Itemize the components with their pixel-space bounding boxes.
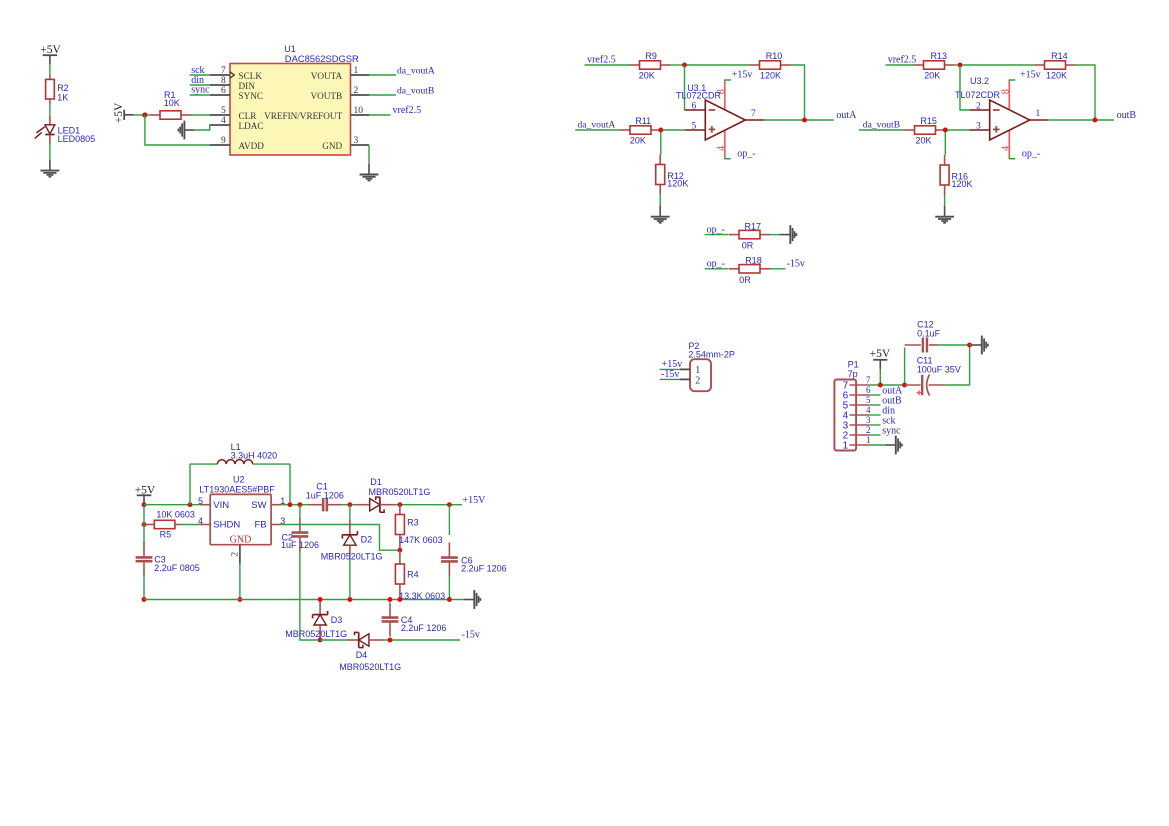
wire [143,525,145,544]
svg-text:1: 1 [866,435,871,445]
svg-text:MBR0520LT1G: MBR0520LT1G [339,662,401,672]
svg-text:10: 10 [354,106,364,116]
svg-text:2: 2 [231,552,241,557]
junction [967,343,972,348]
junction [388,638,393,643]
svg-text:2.54mm-2P: 2.54mm-2P [688,350,735,360]
junction [388,597,393,602]
resistor R10 120K [750,51,791,80]
pin 3 (P1) [843,415,871,432]
inductor L1 3.3uH 4020 [190,442,290,505]
wire [368,145,370,164]
svg-text:op_-: op_- [707,259,725,270]
svg-text:13.3K 0603: 13.3K 0603 [399,591,445,601]
resistor R3 147K 0603 [395,505,442,548]
power +5V supply symbol (U2 branch) [135,484,156,504]
pin 9 AVDD [210,136,264,151]
net label da_voutA + wire (op-amp A input) [575,120,620,131]
pin 4 LDAC [210,116,264,131]
net label sync + wire [190,85,210,96]
svg-text:20K: 20K [630,135,646,145]
op-amp U3.1 TL072CDR [676,80,764,159]
ground rail wire [144,599,464,601]
svg-text:R11: R11 [635,116,651,126]
svg-text:6: 6 [692,101,697,111]
junction [347,502,352,507]
svg-text:4: 4 [1001,145,1012,151]
svg-text:R9: R9 [645,51,657,61]
svg-text:+5V: +5V [40,44,61,56]
svg-text:2: 2 [976,101,981,111]
wire C2 down to charge pump node [300,552,318,641]
junction [318,597,323,602]
pin 5 (P1) [843,395,871,412]
svg-text:D2: D2 [361,534,373,544]
svg-text:MBR0520LT1G: MBR0520LT1G [321,552,383,562]
capacitor C4 2.2uF 1206 [382,600,447,637]
svg-text:vref2.5: vref2.5 [587,55,616,66]
svg-text:TL072CDR: TL072CDR [955,90,1001,100]
wire [134,114,143,116]
junction (R3/R4) [397,548,402,553]
pin 2 (P1) [843,425,871,442]
svg-text:LED0805: LED0805 [58,134,96,144]
svg-text:1uF 1206: 1uF 1206 [281,540,319,550]
net label +15v + wire (P2) [660,359,683,370]
pin 2 GND (U2) [231,545,241,564]
junction [188,502,193,507]
svg-text:7p: 7p [848,369,858,379]
resistor R13 20K [914,51,955,80]
svg-text:+5V: +5V [870,348,891,360]
svg-text:sync: sync [191,85,210,96]
svg-text:U2: U2 [233,474,245,484]
resistor R15 20K [905,116,946,145]
pin 7 (P1) [843,375,871,392]
svg-text:120K: 120K [1046,71,1067,81]
junction [297,502,302,507]
ground (right of R17) [780,225,797,244]
svg-text:U3.2: U3.2 [970,76,989,86]
wire output [1048,119,1114,121]
wire [191,114,210,116]
junction [902,383,907,388]
svg-text:op_-: op_- [737,149,755,160]
net label vref2.5 + wire (op-amp B input) [886,55,917,66]
svg-text:MBR0520LT1G: MBR0520LT1G [369,487,431,497]
junction [397,597,402,602]
svg-text:2: 2 [695,376,700,387]
wire + net label sync (P1 pin2) [869,425,901,436]
power +5V supply symbol (rotated, U1 branch) [113,102,134,123]
svg-text:AVDD: AVDD [239,141,265,151]
svg-text:120K: 120K [760,71,781,81]
svg-text:5: 5 [198,496,203,506]
pin 1 VOUTA [311,66,369,81]
LED LED1 [35,116,95,144]
ground (LED branch) [41,160,60,177]
diode D4 MBR0520LT1G [320,632,401,672]
resistor R14 120K [1035,51,1076,80]
svg-text:20K: 20K [924,71,940,81]
junction [682,63,687,68]
svg-text:LDAC: LDAC [239,121,264,131]
pin 10 VREFIN/VREFOUT [264,106,369,121]
svg-text:5: 5 [692,121,697,131]
junction [237,597,242,602]
resistor R2 [46,75,69,105]
pin 1 (P2) [680,365,700,376]
wire C12 left leg [904,348,906,384]
svg-text:1uF 1206: 1uF 1206 [306,490,344,500]
pin 3 FB [271,516,285,526]
svg-text:VOUTA: VOUTA [311,71,343,81]
wire + net label da_voutB [369,85,434,96]
wire [770,234,780,236]
svg-text:4: 4 [221,116,226,126]
pin 5 VIN [198,496,210,506]
svg-text:7: 7 [221,66,226,76]
svg-text:D1: D1 [370,477,382,487]
junction [802,118,807,123]
svg-text:VIN: VIN [213,500,229,511]
svg-text:100uF 35V: 100uF 35V [917,365,961,375]
net label din + wire [190,75,210,86]
svg-text:outB: outB [1117,110,1137,121]
junction [447,597,452,602]
wire [879,369,881,385]
svg-text:1: 1 [1036,109,1041,119]
svg-text:MBR0520LT1G: MBR0520LT1G [285,629,347,639]
wire [687,64,750,66]
svg-text:R13: R13 [931,51,948,61]
capacitor C11 100uF 35V (polarized) [905,355,961,395]
svg-text:op_-: op_- [707,224,725,235]
resistor R1 10K [147,90,191,119]
wire [49,104,51,116]
wire SW row [281,504,308,506]
pin 2 VOUTB [311,86,369,101]
svg-text:5: 5 [221,106,226,116]
diode D1 MBR0520LT1G [355,477,430,512]
wire +5V down to AVDD [145,115,210,145]
wire [671,64,683,66]
svg-text:SHDN: SHDN [213,519,240,530]
junction [943,128,948,133]
svg-text:2.2uF 0805: 2.2uF 0805 [154,563,200,573]
net label op_- + wire (R17) [705,224,729,235]
resistor R16 120K [940,132,972,195]
net label vref2.5 + wire (op-amp A input) [585,55,631,66]
svg-text:SYNC: SYNC [239,91,264,101]
junction [142,112,147,117]
pin 3 GND [322,136,369,151]
wire feedback to pin2 [960,65,970,110]
wire [945,348,969,386]
wire [970,344,972,346]
power +5V supply symbol (P1) [870,348,891,369]
resistor R11 20K [620,116,661,145]
wire + net label din (P1 pin4) [869,405,895,416]
svg-text:8: 8 [1001,89,1012,94]
wire [791,65,805,118]
svg-text:120K: 120K [667,179,688,189]
IC U1 DAC8562SDGSR body [230,44,359,155]
resistor R4 13.3K 0603 [395,550,445,601]
resistor R17 0R [729,222,770,251]
svg-text:-15v: -15v [787,259,805,270]
wire [963,64,1035,66]
svg-text:+15v: +15v [1020,69,1041,80]
connector P1 7p body [834,359,858,450]
junction [142,502,147,507]
pin 4 SHDN [198,516,210,526]
svg-text:DAC8562SDGSR: DAC8562SDGSR [285,53,359,64]
ground (below R16) [935,206,954,223]
svg-text:4: 4 [866,405,871,415]
pin 5 CLR [210,106,257,121]
svg-text:VREFIN/VREFOUT: VREFIN/VREFOUT [264,111,342,121]
wire + net label da_voutA [369,65,435,76]
svg-text:SW: SW [251,500,266,511]
svg-text:7: 7 [866,375,871,385]
svg-text:10K 0603: 10K 0603 [156,510,195,520]
svg-text:vref2.5: vref2.5 [393,105,422,116]
svg-text:VOUTB: VOUTB [311,91,343,101]
junction [1093,118,1098,123]
diode D2 MBR0520LT1G [321,505,383,597]
wire + net label outB (P1 pin5) [869,395,902,406]
wire -15v row [385,639,461,641]
pin 4 (P1) [843,405,871,422]
ground (P1 pin1) [885,436,902,455]
IC U2 LT1930AES5#PBF body [199,474,275,545]
net label sck + wire [190,65,210,76]
pin 7 SCLK [210,66,262,81]
wire + net label sck (P1 pin3) [869,415,895,426]
ground (C11/C12) [972,336,988,355]
svg-text:+15v: +15v [732,69,753,80]
svg-text:1: 1 [843,440,849,451]
pin 8 DIN [210,76,255,91]
svg-text:op_-: op_- [1022,149,1040,160]
svg-text:R10: R10 [766,51,783,61]
svg-text:5: 5 [866,395,871,405]
svg-text:GND: GND [230,535,252,546]
svg-text:GND: GND [322,141,342,151]
wire [143,507,145,525]
wire [49,144,51,160]
diode D3 MBR0520LT1G [285,600,347,640]
svg-text:da_voutB: da_voutB [397,85,434,96]
ground (rail, right arrow) [464,590,480,609]
junction [658,128,663,133]
pin 6 SYNC [210,86,263,101]
svg-text:20K: 20K [916,135,932,145]
junction [142,597,147,602]
wire LDAC [195,125,211,130]
wire +15V row [395,504,462,506]
wire output [764,119,834,121]
resistor R12 120K [656,132,689,194]
wire [1076,65,1096,118]
svg-text:R18: R18 [745,255,762,265]
net label -15v + wire (P2) [660,369,680,380]
wire [663,129,685,131]
svg-text:vref2.5: vref2.5 [888,55,917,66]
op-amp U3.2 TL072CDR [955,76,1048,159]
wire VIN row [144,504,200,506]
wire [948,129,970,131]
svg-text:7: 7 [751,109,756,119]
svg-text:R14: R14 [1051,51,1068,61]
svg-text:2.2uF 1206: 2.2uF 1206 [401,623,447,633]
wire (P1 pin1 to ground) [869,444,885,446]
svg-text:D4: D4 [356,650,368,660]
svg-text:D3: D3 [331,615,343,625]
resistor R5 10K 0603 [144,510,200,540]
wire [944,195,946,206]
svg-text:-15v: -15v [462,629,480,640]
junction [878,383,883,388]
junction [447,502,452,507]
svg-text:+5V: +5V [113,102,125,123]
wire FB feedback [281,525,397,551]
junction [318,638,323,643]
svg-text:R3: R3 [407,518,419,528]
pin 1 SW [271,496,285,506]
junction [397,502,402,507]
svg-text:R5: R5 [160,530,172,540]
svg-text:4: 4 [716,145,727,151]
capacitor C12 0.1uF [905,320,941,353]
resistor R9 20K [630,51,671,80]
pin 1 (P1) [843,435,871,452]
svg-text:da_voutA: da_voutA [578,120,616,131]
svg-text:R17: R17 [745,222,762,232]
junction [288,502,293,507]
junction (R5 row) [142,522,147,527]
wire [143,503,145,505]
wire feedback to pin6 [685,65,686,110]
svg-text:147K 0603: 147K 0603 [399,535,443,545]
svg-text:3: 3 [354,136,359,146]
svg-text:sync: sync [882,425,901,436]
capacitor C1 1uF 1206 [306,481,344,511]
svg-text:1K: 1K [57,92,68,102]
wire [49,64,51,74]
capacitor C6 2.2uF 1206 [441,505,507,597]
wire [659,195,661,206]
pin 6 (P1) [843,385,871,402]
svg-text:9: 9 [221,136,226,146]
svg-text:20K: 20K [639,71,655,81]
ground (U1 GND pin) [360,164,379,181]
svg-text:CLR: CLR [239,111,258,121]
wire [342,504,360,506]
connector P2 2.54mm-2P body [688,341,735,391]
wire + net label outA (P1 pin6) [869,385,903,396]
wire [143,576,145,599]
svg-text:FB: FB [254,519,266,530]
svg-text:3: 3 [976,121,981,131]
svg-text:da_voutB: da_voutB [863,120,900,131]
svg-text:outA: outA [836,110,857,121]
svg-text:6: 6 [221,86,226,96]
svg-text:2.2uF 1206: 2.2uF 1206 [461,564,507,574]
wire [239,564,241,600]
pin 2 (P2) [680,376,700,387]
svg-text:1: 1 [354,66,359,76]
svg-text:R15: R15 [920,116,937,126]
svg-text:120K: 120K [952,179,973,189]
junction [347,597,352,602]
wire + net label vref2.5 [369,105,421,116]
resistor R18 0R [729,255,770,285]
svg-text:2: 2 [866,425,871,435]
svg-text:DIN: DIN [239,81,256,91]
svg-text:+15V: +15V [463,495,487,506]
svg-text:2: 2 [354,86,359,96]
svg-text:da_voutA: da_voutA [397,65,435,76]
junction [958,63,963,68]
svg-text:-15v: -15v [661,369,679,380]
svg-text:10K: 10K [164,98,180,108]
svg-text:SCLK: SCLK [239,71,263,81]
svg-text:0R: 0R [742,241,754,251]
capacitor C2 1uF 1206 [281,505,319,552]
svg-text:TL072CDR: TL072CDR [676,91,722,101]
wire [938,344,970,346]
svg-text:0.1uF: 0.1uF [917,328,941,338]
svg-text:6: 6 [866,385,871,395]
capacitor C3 2.2uF 0805 [136,542,200,576]
svg-text:0R: 0R [739,275,751,285]
wire (P1 pin7 row) [869,384,904,386]
net label da_voutB + wire (op-amp B input) [859,120,905,131]
svg-text:3.3uH 4020: 3.3uH 4020 [231,451,278,461]
svg-text:R4: R4 [407,569,419,579]
svg-text:3: 3 [866,415,871,425]
net label op_- + wire (R18) [705,259,729,270]
ground (below R12) [651,206,670,223]
power +5V supply symbol (LED branch) [40,44,61,64]
svg-text:LT1930AES5#PBF: LT1930AES5#PBF [199,485,275,495]
wire [770,268,786,270]
svg-text:8: 8 [221,76,226,86]
wire [955,64,958,66]
svg-text:P1: P1 [848,359,859,369]
ground (LDAC) [178,121,195,140]
